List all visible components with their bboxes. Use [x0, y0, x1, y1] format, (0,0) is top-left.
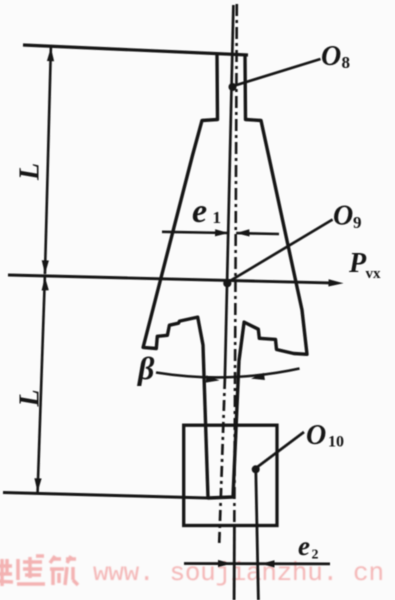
svg-text:2: 2	[312, 548, 319, 563]
svg-text:O: O	[306, 420, 326, 451]
svg-text:β: β	[137, 350, 155, 386]
svg-text:P: P	[348, 248, 367, 279]
svg-text:L: L	[15, 163, 46, 181]
svg-text:vx: vx	[366, 266, 382, 282]
svg-text:L: L	[15, 389, 46, 407]
svg-text:8: 8	[342, 53, 351, 72]
svg-text:1: 1	[213, 208, 222, 227]
svg-text:e: e	[298, 531, 310, 561]
svg-text:9: 9	[353, 213, 362, 232]
svg-text:10: 10	[328, 434, 344, 451]
svg-text:e: e	[192, 193, 207, 230]
svg-text:O: O	[321, 41, 341, 72]
svg-text:O: O	[333, 201, 353, 232]
